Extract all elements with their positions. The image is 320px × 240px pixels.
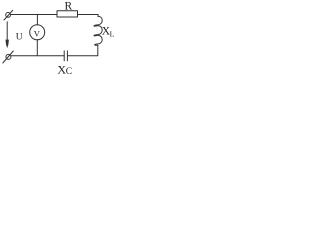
wire top-right (resistor to corner) bbox=[78, 15, 99, 17]
svg-text:XC: XC bbox=[57, 62, 72, 77]
wire voltmeter branch bottom bbox=[36, 40, 38, 56]
voltmeter V1 bbox=[30, 25, 45, 40]
resistor R bbox=[57, 11, 78, 17]
wire right-bottom (coil to corner) bbox=[67, 45, 97, 56]
terminal T2 (bottom-left input) bbox=[3, 51, 14, 63]
svg-text:R: R bbox=[65, 0, 73, 12]
wire voltmeter branch top bbox=[36, 15, 38, 25]
inductor XL coil bbox=[94, 16, 102, 45]
wire top-left (terminal to resistor) bbox=[11, 14, 58, 16]
svg-text:V: V bbox=[34, 29, 41, 39]
svg-text:XL: XL bbox=[102, 26, 115, 39]
wire bottom-left (capacitor to terminal) bbox=[11, 55, 64, 57]
terminal T1 (top-left input) bbox=[4, 10, 13, 20]
svg-text:U: U bbox=[16, 33, 23, 43]
capacitor XC bbox=[64, 51, 67, 61]
arrow U (voltage arrow, pointing down) bbox=[6, 22, 9, 48]
